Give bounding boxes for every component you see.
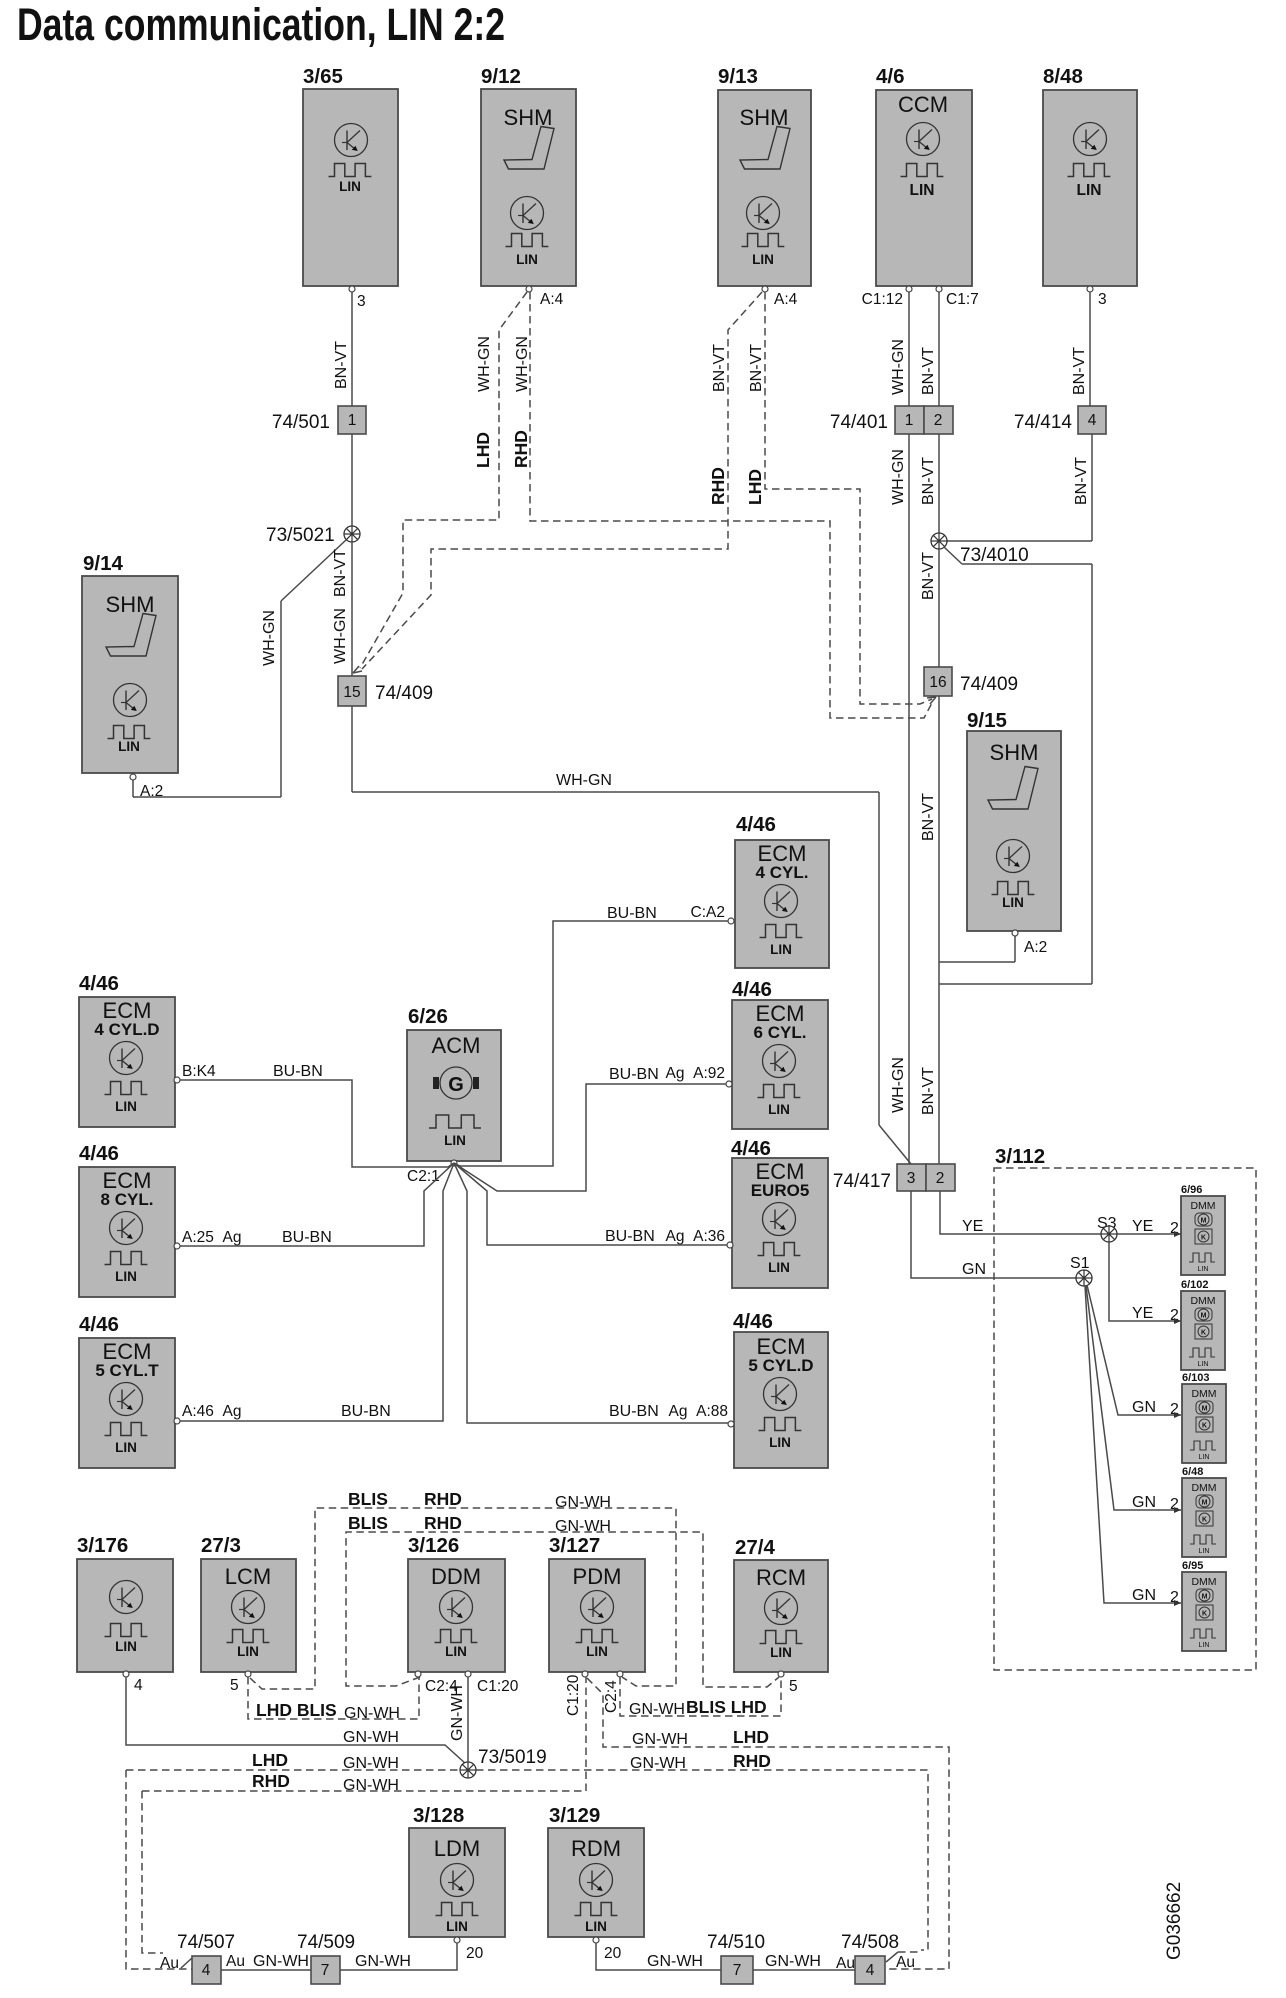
svg-text:A:4: A:4 (540, 291, 564, 308)
dashed LHD wire from 9/13 (765, 292, 932, 704)
wire BU-BN ACM to Ag A:88 (454, 1163, 728, 1423)
svg-text:WH-GN: WH-GN (332, 608, 349, 664)
svg-text:3/65: 3/65 (303, 65, 343, 88)
svg-text:4/46: 4/46 (733, 1310, 773, 1333)
svg-text:73/4010: 73/4010 (960, 545, 1029, 566)
svg-text:73/5019: 73/5019 (478, 1747, 547, 1768)
svg-text:4/46: 4/46 (736, 813, 776, 836)
dashed LHD row through splice (126, 1770, 928, 1950)
svg-text:74/409: 74/409 (375, 683, 433, 704)
svg-text:74/508: 74/508 (841, 1932, 899, 1953)
svg-text:2: 2 (936, 1170, 945, 1187)
module 4/46 ECM 4 CYL. (735, 813, 829, 968)
svg-text:LIN: LIN (339, 179, 361, 194)
svg-text:LIN: LIN (1077, 182, 1102, 199)
splice 73/4010 (931, 533, 947, 549)
svg-text:SHM: SHM (504, 105, 553, 130)
svg-text:GN-WH: GN-WH (344, 1705, 400, 1722)
svg-text:5: 5 (789, 1678, 798, 1695)
svg-text:74/510: 74/510 (707, 1932, 765, 1953)
svg-text:LIN: LIN (768, 1260, 790, 1275)
module 27/4 RCM (734, 1536, 828, 1672)
svg-text:9/15: 9/15 (967, 709, 1007, 732)
wire BN-VT splice down to 74/409:16 (938, 549, 940, 667)
svg-text:9/14: 9/14 (83, 552, 123, 575)
svg-text:3/112: 3/112 (995, 1145, 1045, 1168)
svg-text:LIN: LIN (444, 1133, 466, 1148)
connector 74/409 pin 16 (924, 667, 952, 696)
svg-text:20: 20 (466, 1945, 484, 1962)
svg-text:15: 15 (343, 684, 360, 701)
svg-text:C1:12: C1:12 (862, 291, 903, 308)
wire YE from 74/417:2 to S3 (940, 1191, 1102, 1234)
svg-text:6 CYL.: 6 CYL. (754, 1023, 807, 1042)
svg-text:ACM: ACM (432, 1033, 481, 1058)
svg-text:LIN: LIN (1002, 895, 1024, 910)
branch to 9/15 A:2 (939, 961, 1015, 963)
svg-text:2: 2 (934, 412, 943, 429)
module 4/46 ECM 6 CYL. (732, 978, 828, 1129)
svg-text:WH-GN: WH-GN (514, 336, 531, 392)
svg-text:C1:7: C1:7 (946, 291, 979, 308)
svg-text:BU-BN: BU-BN (282, 1229, 332, 1246)
svg-text:BN-VT: BN-VT (1073, 457, 1090, 505)
svg-text:LIN: LIN (585, 1919, 607, 1934)
wire BN-VT below 16 down to 74/417:2 (938, 696, 940, 1164)
svg-text:A:4: A:4 (774, 291, 798, 308)
wire WH-GN CCM C1:12 down (908, 292, 910, 406)
svg-text:9/12: 9/12 (481, 65, 521, 88)
dashed LHD row right PDM C1:20 to 74/508 (587, 1678, 949, 1969)
solid GN-WH DDM C1:20 to splice (467, 1677, 469, 1762)
wire WH-GN below 74/401:1 down to 74/417:3 (908, 434, 910, 1164)
wire BU-BN ACM to A:25 (180, 1163, 454, 1246)
svg-text:LIN: LIN (237, 1644, 259, 1659)
svg-text:Au: Au (226, 1953, 245, 1970)
svg-text:20: 20 (604, 1945, 622, 1962)
svg-text:3: 3 (357, 293, 366, 310)
svg-text:4 CYL.: 4 CYL. (756, 863, 809, 882)
dashed RHD vertical to 74/507 Au arrow (142, 1791, 163, 1953)
module 4/46 ECM EURO5 (731, 1137, 828, 1288)
svg-text:RHD: RHD (733, 1751, 771, 1771)
module 8/48 (1043, 65, 1137, 286)
svg-text:4/46: 4/46 (79, 1142, 119, 1165)
svg-text:LIN: LIN (768, 1102, 790, 1117)
svg-text:6/48: 6/48 (1182, 1466, 1203, 1478)
svg-text:A:25 Ag: A:25 Ag (182, 1229, 241, 1246)
svg-text:Au: Au (896, 1954, 915, 1971)
svg-text:BU-BN: BU-BN (605, 1228, 655, 1245)
svg-text:73/5021: 73/5021 (266, 525, 340, 546)
pin 3 of 3/65 (349, 286, 355, 292)
svg-text:4: 4 (202, 1962, 211, 1979)
svg-text:RHD: RHD (511, 430, 531, 468)
dashed RHD wire from 9/13 (362, 292, 762, 669)
module 3/65 (303, 65, 398, 286)
svg-text:Ag A:88: Ag A:88 (669, 1403, 728, 1420)
module 4/46 ECM 5 CYL.D (733, 1310, 828, 1468)
svg-text:Au: Au (160, 1955, 179, 1972)
svg-text:4/6: 4/6 (876, 65, 905, 88)
svg-text:GN: GN (1132, 1494, 1156, 1511)
svg-text:3: 3 (907, 1170, 916, 1187)
svg-text:27/3: 27/3 (201, 1534, 241, 1557)
svg-text:27/4: 27/4 (735, 1536, 775, 1559)
module 4/46 ECM 5 CYL.T (79, 1313, 175, 1468)
svg-text:LHD: LHD (473, 432, 493, 468)
wire BN-VT 8/48 down (1089, 292, 1091, 406)
svg-text:4: 4 (866, 1962, 875, 1979)
svg-text:GN-WH: GN-WH (449, 1685, 466, 1741)
9/12 pin A:4 (526, 286, 532, 292)
svg-text:A:46 Ag: A:46 Ag (182, 1403, 241, 1420)
svg-text:C1:20: C1:20 (477, 1678, 519, 1695)
svg-text:16: 16 (929, 674, 946, 691)
svg-text:4/46: 4/46 (79, 972, 119, 995)
svg-text:3/127: 3/127 (549, 1534, 600, 1557)
svg-text:4 CYL.D: 4 CYL.D (94, 1020, 159, 1039)
module 3/127 PDM (549, 1534, 645, 1672)
svg-text:6/102: 6/102 (1181, 1279, 1209, 1291)
svg-text:Ag A:36: Ag A:36 (666, 1228, 725, 1245)
CCM pin C1:12 (906, 286, 912, 292)
splice 73/5019 (460, 1762, 476, 1778)
svg-text:GN-WH: GN-WH (630, 1755, 686, 1772)
svg-text:LIN: LIN (910, 182, 935, 199)
svg-text:LDM: LDM (434, 1836, 480, 1861)
wire BU-BN ACM to A:46 (180, 1163, 454, 1421)
wire BU-BN ACM to Ag A:92 (454, 1084, 726, 1191)
wire Au GN-WH 74/507 to 74/509 (221, 1969, 311, 1971)
svg-text:S1: S1 (1070, 1255, 1090, 1272)
wire 74/501 to splice (351, 434, 353, 526)
dashed BLIS RHD row2 DDM C2:4 to RCM:5 (346, 1532, 779, 1687)
svg-text:6/96: 6/96 (1181, 1184, 1202, 1196)
svg-text:LIN: LIN (770, 942, 792, 957)
wire GN from 74/417:3 to S1 (911, 1191, 1077, 1278)
dashed LHD BLIS row LCM:5 to DDM C2:4 (248, 1677, 419, 1719)
svg-text:3/126: 3/126 (408, 1534, 459, 1557)
module 4/46 ECM 4 CYL.D (79, 972, 175, 1127)
svg-text:BLIS LHD: BLIS LHD (686, 1697, 767, 1717)
svg-text:Au: Au (836, 1955, 855, 1972)
svg-text:LIN: LIN (446, 1919, 468, 1934)
wire to 9/14 A:2 (133, 796, 281, 798)
svg-text:1: 1 (348, 412, 357, 429)
svg-text:C2:4: C2:4 (603, 1680, 620, 1713)
8/48 pin 3 (1087, 286, 1093, 292)
svg-text:BU-BN: BU-BN (607, 905, 657, 922)
svg-text:RDM: RDM (571, 1836, 621, 1861)
svg-text:9/13: 9/13 (718, 65, 758, 88)
svg-text:GN-WH: GN-WH (555, 1518, 611, 1535)
svg-text:WH-GN: WH-GN (556, 772, 612, 789)
svg-text:LIN: LIN (115, 1269, 137, 1284)
solid GN-WH 3/176 to splice 73/5019 (126, 1677, 466, 1764)
svg-text:LIN: LIN (115, 1099, 137, 1114)
wire BN-VT below 74/414 to splice level (1091, 434, 1093, 541)
module 27/3 LCM (201, 1534, 296, 1672)
svg-text:74/501: 74/501 (272, 412, 330, 433)
svg-text:GN-WH: GN-WH (343, 1729, 399, 1746)
svg-text:8 CYL.: 8 CYL. (101, 1190, 154, 1209)
svg-text:GN-WH: GN-WH (355, 1953, 411, 1970)
svg-text:RCM: RCM (756, 1565, 806, 1590)
svg-text:6/103: 6/103 (1182, 1372, 1210, 1384)
svg-text:5 CYL.T: 5 CYL.T (95, 1361, 159, 1380)
svg-text:LIN: LIN (769, 1435, 791, 1450)
svg-text:GN-WH: GN-WH (632, 1731, 688, 1748)
svg-text:C1:20: C1:20 (565, 1674, 582, 1716)
svg-text:C2:1: C2:1 (407, 1168, 440, 1185)
svg-text:GN: GN (1132, 1399, 1156, 1416)
wire GN S1 to 6/95 (1085, 1286, 1181, 1603)
svg-text:6/26: 6/26 (408, 1005, 448, 1028)
svg-text:74/401: 74/401 (830, 412, 888, 433)
arrow into 74/409:16 (927, 697, 936, 704)
svg-text:74/509: 74/509 (297, 1932, 355, 1953)
svg-text:RHD: RHD (252, 1771, 290, 1791)
svg-text:GN-WH: GN-WH (555, 1494, 611, 1511)
svg-text:BU-BN: BU-BN (273, 1063, 323, 1080)
module 3/176 (77, 1534, 173, 1672)
wire GN-WH Au 74/510 to 74/508 (753, 1969, 855, 1971)
svg-text:GN-WH: GN-WH (253, 1953, 309, 1970)
svg-text:8/48: 8/48 (1043, 65, 1083, 88)
svg-text:A:2: A:2 (1024, 939, 1047, 956)
svg-text:5 CYL.D: 5 CYL.D (748, 1356, 813, 1375)
svg-text:LHD: LHD (252, 1750, 288, 1770)
svg-text:74/414: 74/414 (1014, 412, 1073, 433)
svg-text:1: 1 (905, 412, 914, 429)
svg-text:WH-GN: WH-GN (890, 339, 907, 395)
svg-text:4: 4 (1088, 412, 1097, 429)
svg-text:Data communication, LIN 2:2: Data communication, LIN 2:2 (17, 0, 505, 50)
svg-text:LHD BLIS: LHD BLIS (256, 1700, 337, 1720)
dashed GN-WH BLIS LHD row PDM C2:4 to RCM:5 (620, 1677, 781, 1716)
wire splice down to 74/409:15 (351, 542, 353, 676)
svg-text:BN-VT: BN-VT (748, 344, 765, 392)
svg-text:RHD: RHD (424, 1513, 462, 1533)
svg-text:3: 3 (1098, 291, 1107, 308)
svg-text:GN-WH: GN-WH (343, 1777, 399, 1794)
svg-text:74/417: 74/417 (833, 1171, 891, 1192)
wire BU-BN B:K4 to ACM (180, 1080, 454, 1167)
svg-text:GN: GN (962, 1261, 986, 1278)
svg-text:RHD: RHD (708, 467, 728, 505)
module 4/6 CCM (876, 65, 972, 286)
svg-text:BN-VT: BN-VT (333, 341, 350, 389)
svg-text:6/95: 6/95 (1182, 1560, 1203, 1572)
svg-text:PDM: PDM (573, 1564, 622, 1589)
svg-text:RHD: RHD (424, 1489, 462, 1509)
svg-text:BLIS: BLIS (348, 1489, 388, 1509)
svg-text:7: 7 (733, 1962, 742, 1979)
svg-text:BU-BN: BU-BN (609, 1066, 659, 1083)
connector 74/409 pin 15 (338, 676, 366, 706)
svg-text:BN-VT: BN-VT (920, 793, 937, 841)
svg-text:LIN: LIN (770, 1645, 792, 1660)
svg-text:4: 4 (134, 1677, 143, 1694)
wire GN S1 to 6/48 (1086, 1286, 1181, 1510)
svg-text:GN-WH: GN-WH (647, 1953, 703, 1970)
svg-text:BN-VT: BN-VT (920, 1067, 937, 1115)
svg-text:C:A2: C:A2 (691, 904, 725, 921)
svg-text:BN-VT: BN-VT (711, 344, 728, 392)
wire YE S3 down to 6/102 (1109, 1242, 1181, 1321)
svg-text:BN-VT: BN-VT (332, 549, 349, 597)
svg-text:GN: GN (1132, 1587, 1156, 1604)
svg-text:LHD: LHD (733, 1727, 769, 1747)
svg-text:GN-WH: GN-WH (765, 1953, 821, 1970)
wire GN S1 to 6/103 (1087, 1285, 1181, 1415)
svg-text:BLIS: BLIS (348, 1513, 388, 1533)
wire YE S3 to 6/96 (1117, 1233, 1181, 1235)
module 3/129 RDM (548, 1804, 644, 1937)
svg-text:LIN: LIN (115, 1440, 137, 1455)
wire BN-VT 3/65 to 74/501 (351, 292, 353, 406)
svg-text:WH-GN: WH-GN (476, 336, 493, 392)
svg-text:GN-WH: GN-WH (629, 1701, 685, 1718)
svg-text:LIN: LIN (118, 739, 140, 754)
module 4/46 ECM 8 CYL. (79, 1142, 175, 1297)
svg-text:WH-GN: WH-GN (261, 610, 278, 666)
module 9/14 SHM (82, 552, 178, 773)
wire BU-BN ACM to Ag A:36 (454, 1163, 727, 1245)
module 3/128 LDM (409, 1804, 505, 1937)
svg-text:3/128: 3/128 (413, 1804, 464, 1827)
svg-text:WH-GN: WH-GN (890, 1057, 907, 1113)
module 9/15 SHM (967, 709, 1061, 931)
svg-text:LCM: LCM (225, 1564, 271, 1589)
svg-text:74/507: 74/507 (177, 1932, 235, 1953)
svg-text:LHD: LHD (745, 469, 765, 505)
svg-text:BU-BN: BU-BN (341, 1403, 391, 1420)
svg-text:YE: YE (1132, 1305, 1153, 1322)
svg-text:BN-VT: BN-VT (920, 552, 937, 600)
svg-text:YE: YE (1132, 1218, 1153, 1235)
svg-text:WH-GN: WH-GN (890, 449, 907, 505)
svg-text:BU-BN: BU-BN (609, 1403, 659, 1420)
wire splice diagonal to WH-GN branch (281, 540, 346, 601)
wire BU-BN ACM to C:A2 (454, 921, 728, 1166)
9/13 pin A:4 (762, 286, 768, 292)
svg-text:SHM: SHM (106, 592, 155, 617)
svg-text:LIN: LIN (752, 252, 774, 267)
wire below 15 going right (351, 706, 353, 792)
dashed BLIS RHD row1 LCM:5 to PDM C2:4 (250, 1508, 676, 1689)
svg-text:LIN: LIN (115, 1639, 137, 1654)
dashed RHD wire from 9/12 (530, 292, 933, 718)
svg-text:Ag A:92: Ag A:92 (666, 1065, 725, 1082)
wire BN-VT CCM C1:7 down (938, 292, 940, 406)
wire GN-WH 74/509 to LDM pin 20 (340, 1943, 457, 1970)
svg-text:BN-VT: BN-VT (1071, 347, 1088, 395)
svg-text:DDM: DDM (431, 1564, 481, 1589)
module 3/126 DDM (408, 1534, 505, 1672)
svg-text:74/409: 74/409 (960, 674, 1018, 695)
svg-text:4/46: 4/46 (732, 978, 772, 1001)
svg-text:EURO5: EURO5 (751, 1181, 810, 1200)
svg-text:7: 7 (321, 1962, 330, 1979)
svg-text:B:K4: B:K4 (182, 1063, 216, 1080)
svg-text:LIN: LIN (445, 1644, 467, 1659)
svg-text:LIN: LIN (586, 1644, 608, 1659)
svg-text:BN-VT: BN-VT (920, 457, 937, 505)
svg-text:YE: YE (962, 1218, 983, 1235)
svg-text:5: 5 (230, 1677, 239, 1694)
dashed LHD vertical to 74/507 (126, 1770, 192, 1969)
svg-text:4/46: 4/46 (79, 1313, 119, 1336)
svg-text:SHM: SHM (990, 740, 1039, 765)
svg-text:A:2: A:2 (140, 783, 163, 800)
arrow into 74/409:15 (353, 666, 362, 673)
svg-text:3/129: 3/129 (549, 1804, 600, 1827)
dashed RHD row to PDM C1:20 (142, 1677, 586, 1791)
svg-text:CCM: CCM (898, 92, 948, 117)
module 9/13 SHM (718, 65, 811, 286)
svg-text:SHM: SHM (740, 105, 789, 130)
wire BN-VT below 74/401:2 to splice 73/4010 (938, 434, 940, 533)
module 9/12 SHM (481, 65, 576, 286)
CCM pin C1:7 (936, 286, 942, 292)
wire GN-WH RDM pin 20 to 74/510 (596, 1943, 721, 1970)
dashed LHD wire from 9/12 (360, 292, 527, 668)
svg-text:G036662: G036662 (1164, 1882, 1185, 1960)
svg-text:3/176: 3/176 (77, 1534, 128, 1557)
svg-text:LIN: LIN (516, 252, 538, 267)
svg-text:G: G (448, 1074, 464, 1096)
svg-text:GN-WH: GN-WH (343, 1755, 399, 1772)
svg-text:4/46: 4/46 (731, 1137, 771, 1160)
svg-text:BN-VT: BN-VT (920, 347, 937, 395)
